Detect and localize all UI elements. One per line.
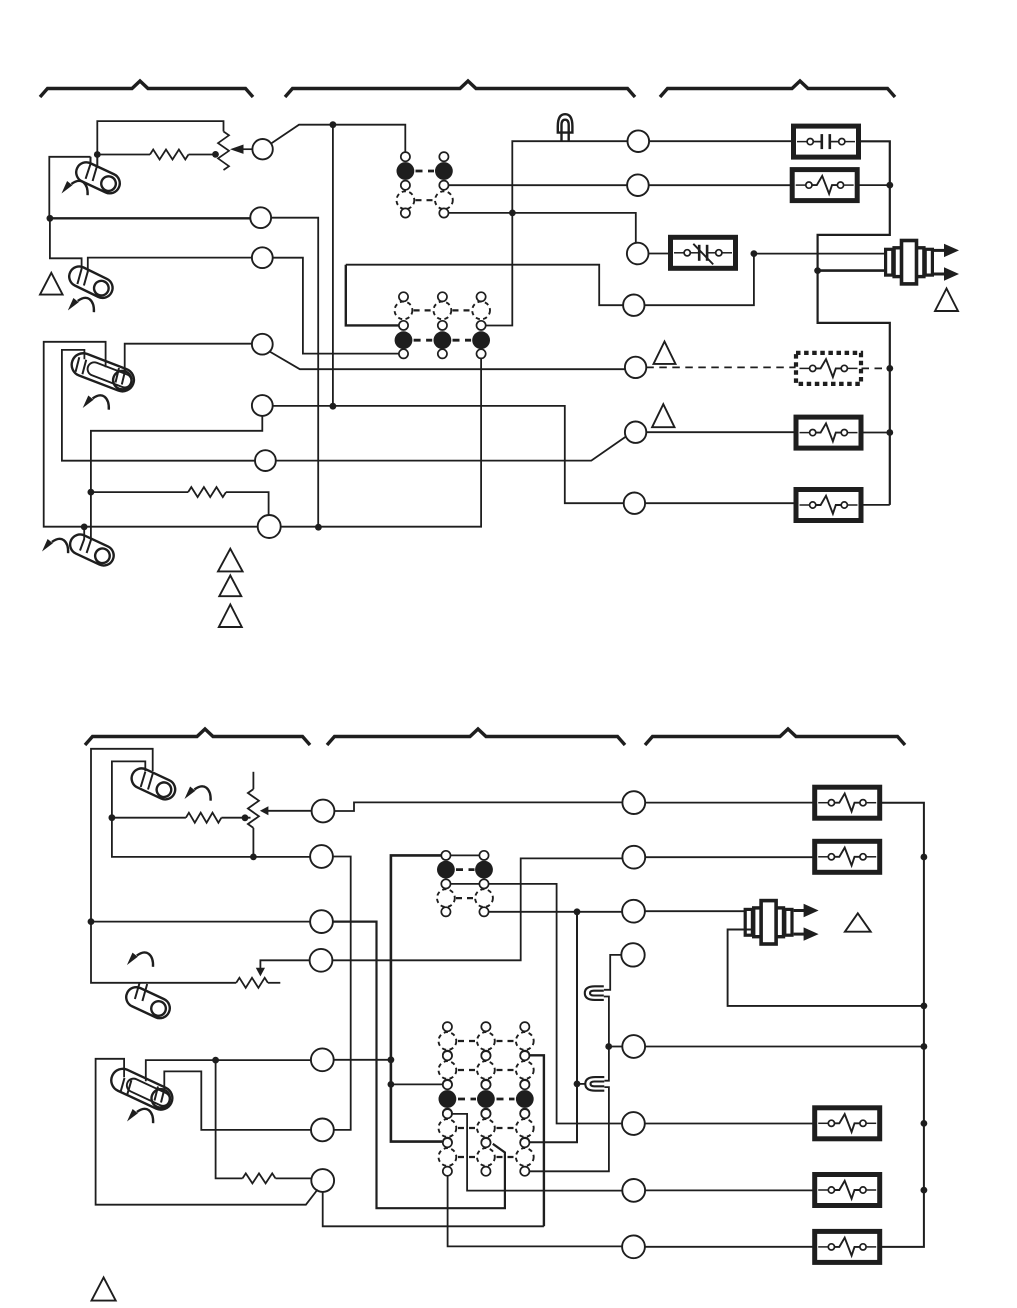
capsule MB1 inner frame wire to B-L2 <box>112 761 310 857</box>
load box B5 (resistance symbol) <box>796 490 861 521</box>
capsule M4 electrodes <box>80 539 84 551</box>
junction dot connector branch <box>814 267 821 274</box>
pilot lamp symbol on T1 wire <box>558 114 573 141</box>
junction dot MB1 frame at B-L3 wire <box>88 918 95 925</box>
wire col1 unit5 bottom to B-R8 <box>448 1176 622 1247</box>
resistor R1 heat anticipator leads <box>97 154 150 156</box>
vertical wire T1 to lower bank col3 <box>486 141 628 325</box>
lower contact bank (fan/cool contacts) <box>395 292 490 358</box>
wire dot to lamp L2 <box>577 1083 585 1085</box>
resistor R1 zigzag <box>150 150 189 160</box>
wire box B2 to common vertical <box>858 184 890 186</box>
terminal circle B-L2 <box>310 845 333 868</box>
junction dot BB4 row <box>921 1187 928 1194</box>
wire B-R7 to load box BB4 <box>645 1189 815 1191</box>
wire B-L1 to B-R1 <box>334 802 622 811</box>
wire box B5 to common vertical <box>862 504 890 506</box>
lower contact bank (bottom diagram) <box>439 1022 534 1176</box>
terminal circle B-R2 <box>622 846 645 869</box>
mercury switch capsule M2 <box>66 263 116 301</box>
terminal circle B-R7 <box>622 1179 645 1202</box>
triangle at T5 <box>654 342 676 364</box>
wire B-R3 to connector (bottom) <box>645 910 753 912</box>
junction dot B-R5 left <box>605 1043 612 1050</box>
wire down-left to capsule M2 <box>50 218 82 269</box>
mercury switch capsule MB1 <box>128 765 178 803</box>
thick wire branch to connector <box>818 269 885 272</box>
wire B-R5 right to common vertical <box>645 1046 924 1048</box>
junction dot MB3 wire <box>212 1057 219 1064</box>
terminal circle T6 <box>625 422 646 443</box>
brace group 1 (thermostat section, top) <box>40 81 253 97</box>
junction dot BB2 row <box>921 854 928 861</box>
curved arrow at M2 <box>68 298 94 312</box>
terminal circle L4 <box>252 334 273 355</box>
potentiometer PB1 tail to B-L2 wire <box>252 828 254 857</box>
wire B-L4 right up to B-R2 <box>332 858 622 960</box>
terminal circle B-L5 <box>311 1048 334 1071</box>
curved arrow at MB3 <box>127 1109 153 1123</box>
wire B-R2 to load box BB2 <box>645 856 815 858</box>
junction dot left end L2 wire <box>47 215 54 222</box>
junction dot M1 electrode to R1 <box>94 151 101 158</box>
capsule M3 electrodes right <box>116 368 120 383</box>
resistor RB2 zigzag (cool anticipator) <box>236 978 268 988</box>
wire L2 right to L7 row <box>271 218 318 528</box>
junction dot on L5 wire <box>330 403 337 410</box>
wire L1 diagonal to upper contact bank <box>271 125 405 152</box>
resistor RB1 zigzag <box>186 813 222 823</box>
terminal circle L2 <box>250 207 271 228</box>
load box B2 (resistance symbol) <box>792 170 857 201</box>
wire T7 to load box B5 <box>645 502 796 504</box>
junction dot branch 1084 <box>388 1081 395 1088</box>
branch wire to lower bank col1 unit3 <box>391 1083 443 1085</box>
terminal circle B-R5 <box>622 1035 645 1058</box>
terminal circle B-R1 <box>622 791 645 814</box>
triangle at connector (top) <box>935 289 958 312</box>
terminal circle B-R3 <box>622 900 645 923</box>
terminal circle B-R6 <box>622 1112 645 1135</box>
wire T4 riser to BN output <box>645 254 754 306</box>
terminal circle T5 <box>625 357 646 378</box>
junction dot on L7 wire at x318 <box>315 524 322 531</box>
pilot lamp L1 (bottom) <box>585 986 604 1000</box>
wire T3 to contact box BN <box>649 253 671 255</box>
junction dot resistor RB1 left <box>109 814 116 821</box>
junction dot col2-bottom branch <box>574 908 581 915</box>
potentiometer P1 vertical zigzag <box>218 132 229 171</box>
junction dot on L1 wire <box>330 121 337 128</box>
curved arrow at M1 <box>62 181 88 195</box>
wire L3 right to lower contact bank col1 <box>273 258 399 354</box>
terminal circle L7 <box>258 515 281 538</box>
potentiometer PB1 stub <box>252 772 254 789</box>
pilot lamp L2 (bottom) <box>585 1077 604 1091</box>
terminal circle B-R4 <box>621 943 644 966</box>
load box BB3 (resistance symbol) <box>815 1108 880 1139</box>
dashed load box B3 <box>796 353 861 384</box>
wire B-L3 left from capsule MB1 frame <box>91 921 310 923</box>
wire B-R8 to load box BB5 <box>645 1246 815 1248</box>
thick frame wire lower bank col1 to T4 feed <box>346 265 399 326</box>
wire B-R4 to lamp L1 chain <box>604 955 622 990</box>
mercury switch capsule M1 <box>73 159 123 197</box>
junction dot dashed row <box>886 365 893 372</box>
junction dot RB1 to PB1 <box>242 814 249 821</box>
dashed wire from dashed box to common vertical <box>862 367 890 369</box>
wire dot down to resistor RB3 <box>216 1060 243 1178</box>
terminal circle T7 <box>624 493 645 514</box>
wire L6 to T6 switch arm <box>276 436 627 461</box>
junction dot connector row <box>921 1003 928 1010</box>
upper contact bank (bottom diagram) <box>437 851 493 917</box>
load box B1 (capacitor symbol) <box>794 126 859 157</box>
terminal circle L6 <box>255 450 276 471</box>
triangle at connector (bottom) <box>845 913 871 931</box>
junction dot R1-P1 <box>212 151 219 158</box>
terminal circle T3 <box>627 243 649 265</box>
load box BB4 (resistance symbol) <box>815 1175 880 1206</box>
wiper arrow into PB1 from B-L1 <box>267 810 311 812</box>
curved arrow at MB2 <box>127 952 153 966</box>
capsule MB1 outer frame wire <box>91 749 236 983</box>
mercury switch capsule MB3 (changeover) <box>107 1065 176 1113</box>
capsule MB2 electrodes <box>135 983 140 999</box>
terminal circle B-L3 <box>310 910 333 933</box>
brace group 3 (system section, top) <box>660 81 895 97</box>
brace group 1 (thermostat section, bottom) <box>85 729 310 745</box>
capsule M1 left frame wire <box>49 157 90 219</box>
wire loop from node R to potentiometer P1 <box>97 121 223 154</box>
capsule MB3 electrodes left <box>120 1078 124 1093</box>
junction dot PB1 tail <box>250 854 257 861</box>
terminal circle B-R8 <box>622 1235 645 1258</box>
junction dot on x512 vertical <box>509 210 516 217</box>
triangle callout 1 <box>40 273 63 295</box>
load box BB1 (resistance symbol) <box>815 787 880 818</box>
triangle at T6 <box>652 404 674 427</box>
terminal circle L3 <box>252 247 273 268</box>
resistor R2 zigzag <box>188 487 226 497</box>
brace group 3 (system section, bottom) <box>645 729 905 745</box>
capsule MB3 inner electrode wire to B-L5 <box>146 1060 311 1081</box>
mercury switch capsule M3 frame outer to L7 row <box>44 342 258 527</box>
wiper arrow into P1 from terminal L1 <box>244 148 253 150</box>
brace group 2 (subbase section, bottom) <box>327 729 625 745</box>
load box BB2 (resistance symbol) <box>815 841 880 872</box>
terminal circle T1 <box>628 130 650 152</box>
dashed wire T5 to dashed box <box>646 366 795 368</box>
junction dot capsule M4 electrode on L7 wire <box>81 524 88 531</box>
junction dot R2 left <box>88 489 95 496</box>
load box BB5 (resistance symbol) <box>815 1231 880 1262</box>
wire B-L2 down to B-L6 <box>333 857 351 1130</box>
load box B4 (resistance symbol) <box>796 417 861 448</box>
curved arrow at M4 <box>42 539 68 553</box>
wire L7 right up to lower bank col3 <box>281 359 481 527</box>
triangle callout bottom left <box>92 1277 116 1300</box>
wire capsule M3 common to L4 <box>125 344 252 372</box>
wire L3 row to capsule M2 second electrode <box>88 258 252 273</box>
mercury switch capsule MB2 <box>123 984 173 1022</box>
wire T2 to load box B2 <box>649 184 793 186</box>
wire frame to terminal T4 <box>346 265 624 306</box>
brace group 2 (subbase section, top) <box>285 81 635 97</box>
resistor RB1 leads <box>112 817 186 819</box>
curved arrow at M3 <box>83 395 109 409</box>
capsule MB3 blob wire to B-L6 <box>164 1071 311 1130</box>
resistor RB3 zigzag <box>243 1173 276 1183</box>
triangle callouts column (3) <box>218 549 243 572</box>
junction dot B-R5 row <box>921 1043 928 1050</box>
wire B-L5 right <box>334 1059 391 1061</box>
terminal circle T2 <box>627 174 649 196</box>
capsule M2 electrodes <box>77 269 81 284</box>
wire T6 to load box B4 <box>646 431 795 433</box>
wire B-R5 left <box>609 1046 623 1048</box>
capsule MB1 electrodes <box>141 772 146 788</box>
wire B-L7 bottom to lower bank col3 unit1 (thick vertical) <box>323 1192 544 1226</box>
lamp L1 legs to vertical <box>604 997 609 1047</box>
wire B-L4 left to wiper arrow RB2 <box>260 960 309 968</box>
vertical branch x577 down to col3 rows <box>529 912 577 1143</box>
wire below L5 down-left to resistor R2 and capsule M4 <box>91 416 262 540</box>
capsule M1 electrodes <box>86 157 91 179</box>
mercury switch capsule M3 (changeover) <box>68 350 137 395</box>
terminal circle T4 <box>623 295 644 316</box>
upper contact bank (heat relay contacts) <box>397 152 453 218</box>
junction dot B2 row <box>886 182 893 189</box>
wire L5 to T7 via step <box>273 406 624 503</box>
capsule M3 electrodes left <box>76 357 80 372</box>
wire contact col2 mid to terminal T2 <box>449 184 628 186</box>
wire B-R1 to load box BB1 <box>645 802 815 804</box>
capsule MB3 electrodes right <box>155 1087 159 1101</box>
terminal circle B-L7 <box>311 1169 334 1192</box>
curved arrow at MB1 <box>185 786 211 800</box>
common right vertical net (top) <box>818 141 890 505</box>
wire col2 bottom small to B-R3 <box>489 911 622 913</box>
connector pin2 wire down to common vertical <box>728 930 924 1006</box>
common right vertical net (bottom) <box>880 803 924 1247</box>
capsule MB3 outer frame to B-L7 arm <box>96 1059 318 1205</box>
wire BN output to connector (thin) <box>754 253 885 255</box>
resistor R2 leads <box>91 491 188 493</box>
wire contact col2 bottom to T3 top <box>449 213 636 243</box>
mercury switch capsule M3 frame inner to L6 <box>62 350 255 461</box>
vertical wire from L1 run down to L5 row <box>332 125 334 407</box>
switch arm from L4 to terminal T5 row <box>270 352 625 370</box>
wire B-R6 to load box BB3 <box>645 1123 815 1125</box>
wire B-L3 right down to lower bank col2 (thick) <box>333 922 505 1209</box>
wire T1 to load box B1 <box>649 140 793 142</box>
terminal circle L5 <box>252 395 273 416</box>
terminal circle B-L1 <box>312 800 335 823</box>
wire box B4 to common vertical <box>862 432 890 434</box>
junction dot lamp row <box>574 1081 581 1088</box>
stub to capsule M4 electrode <box>83 527 85 539</box>
connector plug symbol (bottom) <box>745 901 818 944</box>
junction dot BB3 row <box>921 1120 928 1127</box>
thick net top-smalls / B-L5 / lower bank col1 (bottom) <box>391 855 442 1141</box>
resistor RB2 tail <box>268 982 280 984</box>
junction dot BN output <box>751 250 758 257</box>
wire col1 unit3 bottom to B-R7 <box>451 1114 622 1191</box>
vertical down to lamp L2 <box>604 1047 609 1081</box>
connector plug symbol (top) <box>886 241 959 284</box>
wire L2 row (thick) <box>50 217 250 219</box>
potentiometer PB1 zigzag <box>248 789 259 828</box>
wire mid-smalls to B-R6 descent <box>451 883 480 885</box>
terminal circle B-L4 <box>310 949 333 972</box>
wire col3 unit5 bottom to lamp vertical <box>529 1087 609 1171</box>
terminal circle B-L6 <box>311 1119 334 1142</box>
terminal circle L1 <box>252 139 272 159</box>
contact box BN (switch symbol) <box>671 237 736 268</box>
junction dot B-L5 on thick vertical <box>388 1056 395 1063</box>
junction dot B4 row <box>886 429 893 436</box>
mercury switch capsule M4 <box>67 531 117 569</box>
